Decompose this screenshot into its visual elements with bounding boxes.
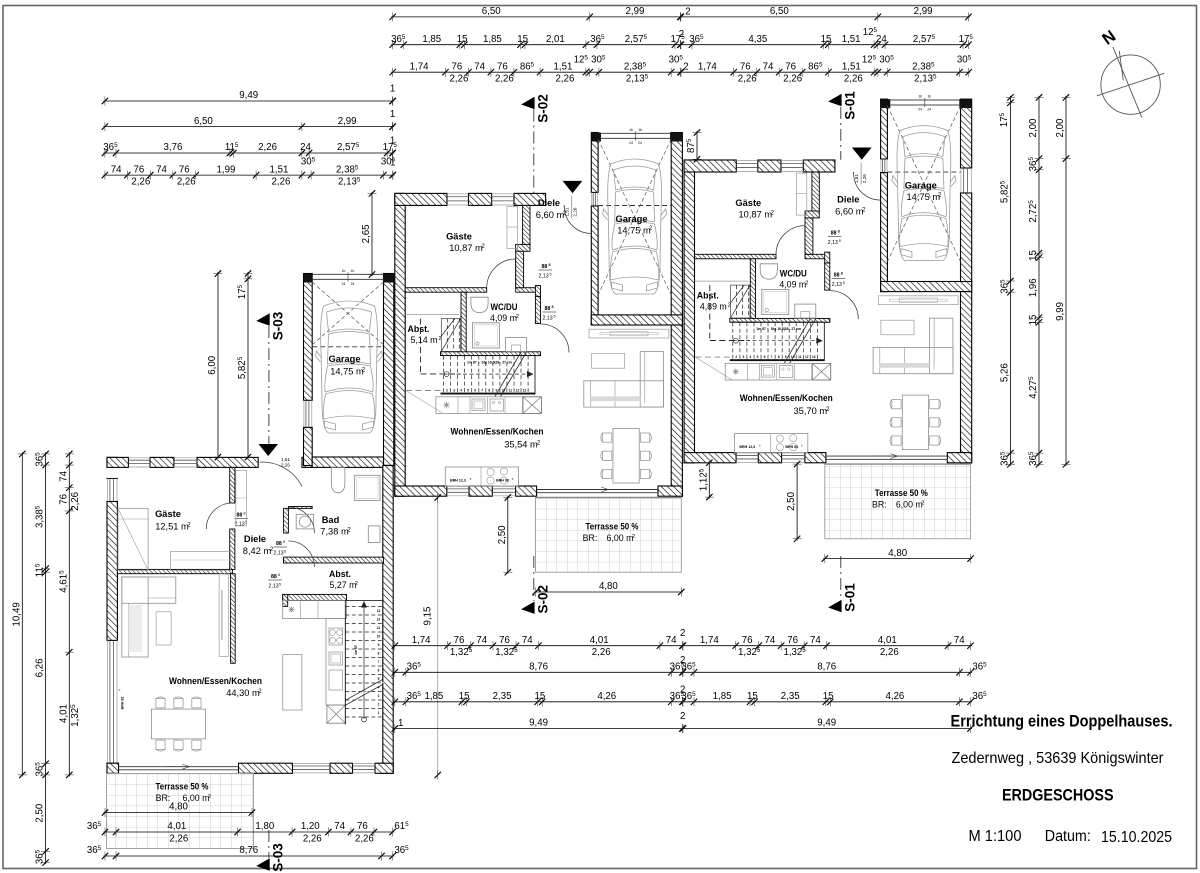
A staircase [344, 601, 346, 725]
svg-text:1: 1 [390, 136, 395, 147]
svg-text:35,70 m: 35,70 m [794, 406, 828, 416]
svg-text:14,75 m: 14,75 m [907, 192, 941, 202]
svg-text:2,26: 2,26 [844, 74, 863, 85]
svg-text:4,01: 4,01 [167, 821, 186, 832]
svg-text:6: 6 [378, 669, 380, 673]
A window south 1 [293, 765, 331, 767]
svg-text:4: 4 [378, 686, 380, 690]
svg-text:2,26: 2,26 [880, 647, 899, 658]
svg-text:5: 5 [467, 389, 469, 393]
svg-text:6: 6 [474, 389, 476, 393]
B garage parking cross [598, 139, 671, 295]
bottom dimension row D [393, 728, 972, 730]
svg-text:BRH 93: BRH 93 [496, 479, 509, 483]
B Gaeste wardrobe [507, 207, 518, 249]
svg-text:76: 76 [499, 635, 510, 646]
C exterior wall west [684, 160, 694, 463]
svg-text:74: 74 [111, 164, 122, 175]
svg-text:4,89 m: 4,89 m [700, 302, 727, 312]
B WEK corner break line [406, 391, 443, 414]
B shower [473, 323, 500, 348]
C kitchen row [725, 363, 831, 380]
svg-text:10,87 m: 10,87 m [449, 243, 483, 253]
svg-text:24: 24 [351, 282, 355, 286]
svg-text:1,74: 1,74 [700, 635, 719, 646]
svg-text:10,87 m: 10,87 m [739, 210, 773, 220]
C kitchen counter south [735, 434, 808, 453]
svg-text:BR:: BR: [583, 533, 598, 543]
svg-text:74: 74 [810, 635, 821, 646]
bottom dimension row A [393, 645, 972, 647]
svg-text:S-02: S-02 [536, 585, 551, 614]
svg-text:13: 13 [377, 609, 381, 613]
svg-text:S-01: S-01 [843, 583, 858, 612]
svg-text:8: 8 [278, 573, 280, 577]
C staircase [730, 321, 825, 323]
A wall Bad west upper [284, 508, 289, 533]
svg-text:2: 2 [680, 628, 685, 639]
C WC washbasin [760, 264, 777, 279]
B window north 1 [447, 196, 469, 198]
A entry door [260, 462, 303, 487]
svg-text:9: 9 [496, 389, 498, 393]
svg-text:1,74: 1,74 [698, 61, 717, 72]
bottom dimension row B [393, 671, 972, 673]
svg-text:8,42 m: 8,42 m [243, 546, 272, 556]
svg-text:4,01: 4,01 [590, 635, 609, 646]
svg-text:2: 2 [805, 281, 808, 287]
left-house bottom dimension row E [104, 831, 395, 833]
svg-text:14,75 m: 14,75 m [330, 367, 364, 377]
svg-text:2,26: 2,26 [258, 142, 277, 153]
C exterior wall east [961, 292, 972, 463]
svg-text:6,00 m: 6,00 m [896, 500, 923, 510]
svg-text:24: 24 [876, 34, 887, 45]
house unit A (left) [102, 269, 394, 849]
B wall Abst/WC [461, 292, 466, 355]
C entry door [854, 173, 881, 200]
A window north 2 [174, 459, 197, 461]
svg-text:12: 12 [516, 389, 520, 393]
B car in garage [603, 159, 667, 294]
svg-text:15: 15 [821, 34, 832, 45]
svg-text:2,26: 2,26 [573, 207, 578, 216]
svg-text:74: 74 [666, 635, 677, 646]
svg-text:S-02: S-02 [536, 94, 551, 123]
B staircase [441, 355, 536, 357]
svg-text:Garage: Garage [328, 354, 360, 364]
svg-text:Wohnen/Essen/Kochen: Wohnen/Essen/Kochen [740, 393, 833, 403]
svg-text:74: 74 [156, 164, 167, 175]
svg-text:2,99: 2,99 [914, 6, 933, 17]
svg-text:2: 2 [378, 703, 380, 707]
B wall WC/Diele [535, 296, 540, 323]
B stair upper winders [441, 319, 460, 352]
svg-text:15: 15 [457, 34, 468, 45]
C wall WC/Diele [825, 263, 830, 290]
svg-text:2,26: 2,26 [556, 74, 575, 85]
A garage clearance dashed line [312, 346, 383, 348]
svg-text:5: 5 [279, 583, 281, 587]
svg-text:BRH 12,3: BRH 12,3 [450, 479, 466, 483]
svg-text:9,99: 9,99 [1055, 302, 1066, 321]
svg-text:88: 88 [276, 541, 282, 547]
svg-text:6,00: 6,00 [207, 355, 218, 374]
svg-text:15: 15 [747, 691, 758, 702]
svg-text:Gäste: Gäste [155, 509, 181, 519]
svg-text:8: 8 [549, 263, 551, 267]
A exterior wall south [107, 763, 119, 773]
svg-text:2,26: 2,26 [783, 74, 802, 85]
svg-text:44,30 m: 44,30 m [226, 688, 260, 698]
svg-text:9,49: 9,49 [529, 718, 548, 729]
A exterior wall east [383, 466, 393, 774]
svg-text:2,26: 2,26 [169, 834, 188, 845]
C exterior wall south [684, 453, 736, 463]
B WC toilet [506, 338, 527, 352]
B garage door (sectional) [591, 133, 601, 142]
svg-text:24: 24 [918, 108, 922, 112]
A exterior wall west upper [107, 457, 117, 478]
svg-text:5: 5 [284, 550, 286, 554]
svg-text:4: 4 [750, 355, 752, 359]
B exterior wall north with window piers [395, 193, 447, 205]
svg-text:2,35: 2,35 [493, 691, 512, 702]
svg-text:2,13: 2,13 [269, 584, 279, 590]
C terrace dim 4,80 [823, 558, 972, 560]
C sofa [873, 347, 953, 373]
C wall Abst/WC [750, 259, 755, 322]
C coffee table [881, 320, 914, 335]
C garage wall west lower [881, 173, 888, 292]
A garage wall south [312, 457, 383, 467]
C garage parking cross [887, 106, 960, 262]
A wall Bad south [284, 557, 384, 563]
svg-text:2,26: 2,26 [592, 647, 611, 658]
dim 2,65 left of garage B [371, 192, 373, 276]
svg-text:74: 74 [522, 635, 533, 646]
B garage wall east / party wall [671, 133, 682, 326]
svg-text:88: 88 [542, 264, 548, 270]
svg-text:3: 3 [743, 355, 745, 359]
svg-text:3: 3 [378, 694, 380, 698]
svg-text:2,99: 2,99 [626, 6, 645, 17]
A coffee table [156, 612, 171, 645]
svg-text:11: 11 [798, 355, 802, 359]
left vertical chain inner [68, 452, 70, 776]
svg-text:1,99: 1,99 [217, 164, 236, 175]
svg-text:1,96: 1,96 [1028, 278, 1039, 297]
svg-text:1m 87: 1m 87 [756, 327, 766, 331]
A wall TV/Diele [231, 574, 236, 664]
svg-text:15: 15 [459, 691, 470, 702]
svg-text:5: 5 [757, 355, 759, 359]
A terrace dim 4,80 [104, 812, 254, 814]
svg-text:8: 8 [841, 272, 843, 276]
svg-text:7: 7 [378, 660, 380, 664]
svg-text:1b: 1b [918, 95, 922, 99]
dim 1,12,5 at unit C [708, 461, 710, 498]
B tall cupboard [523, 397, 541, 414]
svg-text:1,85: 1,85 [483, 34, 502, 45]
C garage window east [963, 168, 965, 193]
A window north 1 [128, 459, 150, 461]
svg-text:2,13: 2,13 [274, 551, 284, 557]
left vertical chain mid [45, 452, 47, 864]
svg-text:1: 1 [390, 109, 395, 120]
A wall Gaeste/Diele upper [230, 467, 235, 503]
C WEK corner break line [695, 357, 732, 380]
svg-text:6,50: 6,50 [194, 116, 213, 127]
B exterior wall west [395, 193, 405, 496]
svg-text:BRH 92: BRH 92 [121, 697, 125, 710]
svg-text:5: 5 [843, 281, 845, 285]
svg-text:6,00 m: 6,00 m [607, 533, 634, 543]
svg-text:12: 12 [377, 618, 381, 622]
B coffee table [592, 354, 625, 369]
B sideboard [589, 329, 669, 338]
dim 87,5 left of garage C [696, 131, 698, 161]
svg-text:7: 7 [481, 389, 483, 393]
svg-text:2,50: 2,50 [497, 525, 508, 544]
svg-text:WC/DU: WC/DU [780, 269, 807, 279]
left-house top dimension row 6,50/2,99 [103, 126, 394, 128]
svg-text:1b: 1b [629, 128, 633, 132]
C entry arrow [852, 148, 872, 160]
C Gaeste door [804, 226, 806, 255]
B wall below stair [441, 393, 536, 395]
svg-text:S-03: S-03 [271, 843, 286, 872]
svg-text:2: 2 [685, 7, 690, 18]
top dimension row 2 [391, 44, 970, 46]
svg-text:76: 76 [742, 635, 753, 646]
svg-text:Stg 16,5|28 - 27 cm: Stg 16,5|28 - 27 cm [482, 361, 512, 365]
svg-text:24: 24 [629, 141, 633, 145]
svg-text:8: 8 [838, 230, 840, 234]
B window north 2 [492, 196, 514, 198]
A bed [118, 508, 148, 570]
C garage side door [882, 159, 884, 173]
svg-text:5: 5 [550, 273, 552, 277]
svg-text:2,26: 2,26 [862, 174, 867, 183]
svg-text:5,14 m: 5,14 m [411, 335, 438, 345]
svg-text:1,51: 1,51 [842, 61, 861, 72]
B wall Gaeste/Diele upper [523, 205, 530, 245]
A wall Abst south / kitchen [283, 594, 347, 600]
C wall WC south [730, 318, 830, 322]
B Gaeste door [515, 259, 517, 288]
A entry arrow [259, 444, 279, 456]
C garage wall east upper [961, 99, 972, 168]
A Bad door [288, 507, 314, 533]
C garage clearance dashed line [887, 171, 960, 173]
svg-text:Datum:: Datum: [1045, 828, 1091, 845]
house unit C [684, 95, 974, 563]
svg-text:12,51 m: 12,51 m [155, 522, 189, 532]
svg-text:2,26: 2,26 [177, 177, 196, 188]
top dimension row 3 [391, 71, 970, 73]
A terrace [107, 774, 254, 849]
B entry arrow [563, 181, 583, 193]
svg-text:88: 88 [831, 231, 837, 237]
svg-text:7,38 m: 7,38 m [320, 527, 349, 537]
svg-text:24: 24 [342, 282, 346, 286]
section line S-01 [840, 107, 842, 160]
svg-text:74: 74 [476, 635, 487, 646]
B garage clearance dashed line [598, 205, 671, 207]
svg-text:4,35: 4,35 [748, 34, 767, 45]
C wall between Gaeste and hall [695, 254, 777, 258]
A wall Gaeste south [117, 569, 232, 573]
top dimension row 1 (6,50 / 2,99 / 2 / 6,50 / 2,99) [391, 16, 970, 18]
svg-text:88: 88 [237, 513, 243, 519]
B garage side door [592, 192, 594, 206]
C terrace dim 2,50 [796, 463, 798, 541]
svg-text:2,26: 2,26 [70, 492, 81, 511]
B window south 1 [447, 488, 469, 490]
C exterior wall north with window piers [684, 160, 736, 172]
svg-text:2,00: 2,00 [1055, 118, 1066, 137]
svg-text:1,74: 1,74 [410, 61, 429, 72]
svg-text:76: 76 [58, 494, 69, 505]
svg-text:S-03: S-03 [271, 311, 286, 340]
C terrace [825, 464, 971, 539]
B exterior wall south [395, 486, 447, 496]
C wall Gaeste/Diele upper [812, 172, 819, 212]
svg-text:88: 88 [545, 306, 551, 312]
svg-text:2,26: 2,26 [303, 834, 322, 845]
svg-text:88: 88 [271, 574, 277, 580]
svg-text:2: 2 [680, 711, 685, 722]
svg-text:14,75 m: 14,75 m [617, 226, 651, 236]
C Gaeste wardrobe [796, 173, 807, 215]
C garage door (sectional) [881, 99, 891, 108]
left-house bottom dimension row F [104, 855, 395, 857]
svg-text:5,26: 5,26 [999, 363, 1010, 382]
A garage door (sectional) [304, 274, 313, 283]
B wall WC south [441, 352, 541, 356]
svg-text:Garage: Garage [905, 181, 937, 191]
svg-text:2,50: 2,50 [786, 491, 797, 510]
B terrace [536, 498, 682, 573]
svg-text:WC/DU: WC/DU [491, 302, 518, 312]
A Gaeste door [206, 502, 232, 504]
svg-text:76: 76 [133, 164, 144, 175]
svg-text:1,51: 1,51 [281, 457, 290, 462]
B entry door [564, 207, 591, 234]
svg-text:74: 74 [763, 61, 774, 72]
svg-text:1,85: 1,85 [422, 34, 441, 45]
svg-text:Gäste: Gäste [735, 198, 761, 208]
svg-text:1,85: 1,85 [713, 691, 732, 702]
left-house top dimension row 3 [103, 152, 394, 154]
B wall between Gaeste and hall [405, 288, 487, 293]
svg-text:2,26: 2,26 [272, 177, 291, 188]
svg-text:1b: 1b [342, 269, 346, 273]
B garage wall west upper [591, 133, 598, 193]
svg-text:BRH 12,3: BRH 12,3 [739, 445, 755, 449]
svg-text:2,35: 2,35 [781, 691, 800, 702]
svg-text:2,99: 2,99 [338, 116, 357, 127]
svg-text:3,76: 3,76 [163, 142, 182, 153]
B WC door [541, 324, 570, 353]
section line S-02 [533, 110, 535, 194]
svg-text:2: 2 [355, 581, 358, 587]
svg-text:74: 74 [474, 61, 485, 72]
svg-text:1,74: 1,74 [412, 635, 431, 646]
A washbasin [331, 467, 345, 492]
svg-text:74: 74 [58, 470, 69, 481]
svg-text:S-01: S-01 [843, 91, 858, 120]
right vertical chain 3 [1065, 96, 1067, 466]
svg-text:9: 9 [785, 355, 787, 359]
A dresser [170, 551, 230, 570]
C WC door [830, 291, 859, 320]
A tall cupboard [327, 705, 345, 723]
svg-text:2: 2 [516, 314, 519, 320]
svg-text:74: 74 [954, 635, 965, 646]
svg-text:1,51: 1,51 [854, 174, 859, 183]
svg-text:2: 2 [679, 29, 684, 40]
C terrace sliding door [826, 455, 947, 457]
bottom dimension row C [393, 701, 972, 703]
svg-text:15.10.2025: 15.10.2025 [1101, 829, 1172, 846]
svg-text:Terrasse 50 %: Terrasse 50 % [875, 488, 928, 498]
section marker S-01 bottom [828, 600, 842, 612]
left vertical dimension 10,49 [21, 452, 23, 776]
svg-text:74: 74 [334, 821, 345, 832]
svg-text:4,09 m: 4,09 m [779, 280, 806, 290]
svg-text:8: 8 [378, 652, 380, 656]
svg-text:15: 15 [517, 34, 528, 45]
C window north 1 [736, 162, 758, 164]
left-house top dimension row 4 [103, 174, 394, 176]
svg-text:2: 2 [446, 389, 448, 393]
A kitchen island [283, 655, 302, 710]
svg-text:5,27 m: 5,27 m [330, 580, 357, 590]
svg-text:6,26: 6,26 [35, 659, 46, 678]
A kitchen top run [283, 601, 347, 619]
svg-text:2: 2 [683, 62, 688, 73]
dim 17,5/5,82,5 left of garage A [247, 272, 249, 459]
svg-text:2,13: 2,13 [832, 282, 842, 288]
svg-text:15: 15 [535, 691, 546, 702]
svg-text:8: 8 [552, 305, 554, 309]
svg-text:BRH 93: BRH 93 [785, 445, 798, 449]
svg-text:Abst.: Abst. [697, 291, 719, 301]
svg-text:4,01: 4,01 [58, 704, 69, 723]
svg-text:12: 12 [805, 355, 809, 359]
svg-text:8: 8 [244, 512, 246, 516]
svg-text:Stg 16,5|28 - 27 cm: Stg 16,5|28 - 27 cm [771, 327, 801, 331]
svg-text:13: 13 [812, 355, 816, 359]
svg-text:88: 88 [834, 273, 840, 279]
right vertical chain 1 [1009, 96, 1011, 466]
svg-text:1: 1 [390, 84, 395, 95]
svg-text:Garage: Garage [615, 214, 647, 224]
svg-text:4,80: 4,80 [888, 548, 907, 559]
section marker S-03 top [256, 313, 270, 325]
svg-text:1m 87: 1m 87 [467, 361, 477, 365]
svg-text:1: 1 [378, 711, 380, 715]
svg-text:8: 8 [283, 540, 285, 544]
svg-text:2,26: 2,26 [355, 834, 374, 845]
svg-text:M 1:100: M 1:100 [969, 828, 1022, 845]
A bathtub [368, 526, 380, 543]
A exterior wall west mid [107, 502, 117, 641]
dim 6,00 left of garage A [217, 272, 219, 459]
section line S-03 [268, 326, 270, 457]
